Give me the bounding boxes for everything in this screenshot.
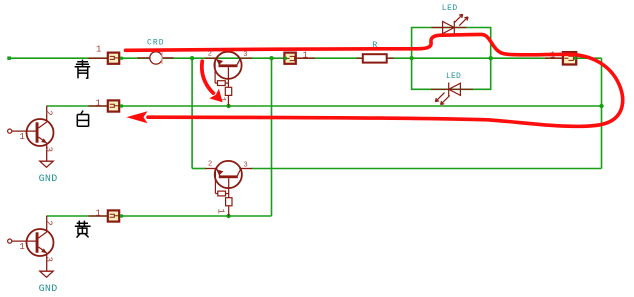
J1 body: [108, 53, 119, 64]
svg-text:2: 2: [44, 220, 54, 225]
Q3 base bar: [36, 122, 39, 142]
Q4 base bar: [36, 232, 39, 252]
D2 lead: [431, 88, 473, 90]
Q2 series base resistor box: [226, 198, 232, 206]
junction node on 青 at x=490.7: [489, 56, 493, 60]
Q3 emitter pin down: [46, 143, 48, 161]
R right lead: [388, 57, 394, 59]
D2 emission arrow a: [435, 93, 444, 102]
connector J3 (net 黄): [88, 208, 123, 221]
CRD body circle: [150, 52, 162, 64]
Q4 collector line: [39, 232, 47, 238]
transistor Q3 (left NPN, net 白 driver): [8, 106, 58, 185]
Q2 pin 3 lead: [239, 168, 252, 170]
Q3 emitter line: [39, 137, 47, 143]
wire net 青 main horizontal: [8, 57, 602, 59]
Q3 base lead: [12, 130, 37, 132]
Q1 base lead to node: [227, 95, 229, 106]
CRD cathode tick: [161, 52, 163, 65]
red annotation stroke (freehand): [126, 34, 623, 126]
wire end dot at J1: [120, 57, 123, 60]
svg-text:GND: GND: [39, 284, 58, 295]
J2 pin 1 lead: [88, 105, 106, 107]
R body: [363, 54, 387, 62]
J4 socket notch: [285, 56, 294, 60]
J4 body: [284, 53, 295, 64]
svg-text:2: 2: [208, 161, 212, 169]
Q4 body circle: [27, 229, 54, 256]
LED D1 (top, anode left): [431, 14, 468, 34]
J4 pin 1 lead: [297, 57, 315, 59]
Q1 emitter line: [216, 58, 219, 65]
J2 body: [108, 100, 119, 111]
Q2 body circle: [215, 161, 242, 188]
J1 pin 1 lead: [88, 57, 106, 59]
Q2 emitter line: [217, 169, 220, 176]
D1 cathode bar: [453, 21, 455, 34]
label 黄 (hand-drawn glyph): [75, 221, 91, 238]
wire net 白 horizontal: [47, 105, 602, 107]
wire LED block bottom rail: [412, 58, 491, 89]
ground symbol GND (Q4 emitter): [40, 271, 53, 277]
Q2 base bar: [219, 175, 238, 178]
svg-text:LED: LED: [446, 72, 461, 81]
wire end dot at J5: [574, 57, 577, 60]
Q4 emitter pin down: [46, 253, 48, 271]
CRD left lead: [138, 57, 150, 59]
svg-text:1: 1: [96, 208, 101, 218]
D1 emission arrow a: [454, 14, 463, 23]
D2 triangle: [449, 83, 461, 95]
Q1 pin 2 lead: [205, 57, 217, 59]
J5 socket notch: [564, 56, 573, 60]
svg-text:GND: GND: [39, 174, 58, 185]
LED D2 (bottom, anode right): [431, 83, 473, 105]
wire horizontal to Q2 pin2: [192, 168, 206, 170]
D1 lead: [431, 27, 466, 29]
J2 socket notch: [110, 104, 119, 107]
junction node on 青 at x=192: [190, 56, 194, 60]
Q4 base lead: [12, 240, 37, 242]
Q2 base lead down: [228, 178, 230, 198]
Q3 pin 1 open end pad: [8, 129, 12, 133]
svg-text:CRD: CRD: [147, 38, 165, 47]
wire Q2 pin3 to right: [251, 168, 602, 170]
Q1 collector line: [237, 58, 241, 65]
Q4 emitter line: [39, 247, 47, 253]
Q1 emitter arrow: [217, 59, 223, 65]
red annotation arrowhead (curved arrow): [209, 89, 222, 103]
J3 pin 1 lead: [88, 215, 106, 217]
junction node on 青 at x=271.5: [269, 56, 273, 60]
svg-text:1: 1: [216, 209, 226, 214]
J3 body: [108, 210, 119, 221]
Q4 pin 1 open end pad: [8, 239, 12, 243]
resistor R: [357, 40, 394, 63]
Q1 series base resistor box: [225, 87, 231, 95]
Q1 emitter-resistor link: [214, 58, 216, 83]
junction node on 青 at x=411.6: [409, 56, 413, 60]
Q3 body circle: [27, 119, 54, 146]
Q1 base bar: [219, 64, 238, 67]
svg-text:3: 3: [243, 51, 247, 59]
connector J5 (right side): [545, 51, 577, 65]
svg-text:1: 1: [19, 242, 24, 252]
Q1 base lead down: [227, 67, 229, 87]
svg-text:LED: LED: [442, 4, 458, 13]
R left lead: [357, 57, 362, 59]
Q3 collector line: [39, 122, 47, 128]
svg-text:1: 1: [19, 132, 24, 142]
Q3 emitter arrow: [41, 138, 47, 143]
D1 triangle: [443, 22, 455, 34]
wire end dot at J3: [120, 214, 123, 217]
junction node 白 at Q1 base: [226, 104, 230, 108]
junction node on 白 at x=601.5: [599, 104, 603, 108]
transistor Q4 (left NPN, net 黄 driver): [8, 216, 58, 295]
J5 pin 1 lead: [545, 57, 562, 59]
current regulating diode CRD: [138, 38, 174, 64]
CRD right lead: [162, 57, 173, 59]
svg-text:2: 2: [44, 110, 54, 115]
red annotation arrowhead (long left arrow): [126, 111, 147, 123]
wire vertical x=271.5: [271, 58, 273, 216]
Q1 bias resistor box: [218, 81, 226, 86]
Q4 collector pin up: [46, 216, 48, 232]
svg-text:3: 3: [43, 147, 53, 152]
transistor Q1 (top middle, digital transistor with bias resistors): [205, 50, 252, 106]
svg-text:1: 1: [96, 98, 101, 108]
wire vertical x=192: [191, 58, 193, 168]
Q2 pin 2 lead: [205, 168, 217, 170]
Q2 emitter-resistor link: [214, 169, 216, 194]
Q2 bias resistor box: [218, 191, 226, 196]
Q2 base lead to node: [228, 206, 230, 216]
label 白 (hand-drawn glyph): [77, 111, 88, 127]
wire LED block top rail: [412, 28, 491, 59]
Q1 pin 3 lead: [239, 57, 252, 59]
red annotation curved arrow at Q1: [202, 61, 213, 93]
connector J4 (on net 青 right of Q1): [284, 51, 315, 64]
wire start marker left end: [7, 56, 11, 60]
J5 body: [563, 52, 576, 64]
svg-text:1: 1: [303, 51, 308, 61]
wire vertical x=601.5: [601, 58, 603, 168]
D1 emission arrow b: [459, 17, 468, 26]
Q2 collector line: [237, 169, 241, 176]
svg-text:3: 3: [244, 161, 248, 169]
connector J2 (net 白): [88, 98, 123, 111]
junction node 黄 at Q2 base: [226, 214, 230, 218]
svg-text:1: 1: [96, 45, 101, 55]
J3 socket notch: [110, 214, 119, 217]
svg-text:3: 3: [43, 257, 53, 262]
transistor Q2 (middle, digital transistor with bias resistors): [205, 161, 252, 216]
wire net 黄 horizontal: [47, 215, 272, 217]
Q4 emitter arrow: [41, 248, 47, 253]
ground symbol GND (Q3 emitter): [40, 161, 53, 167]
connector J1 (net 青): [88, 45, 123, 64]
Q1 body circle: [214, 52, 241, 79]
D2 cathode bar: [448, 83, 450, 97]
wire end dot at J4: [284, 57, 287, 60]
J1 socket notch: [110, 56, 119, 59]
wire end dot at J2: [120, 104, 123, 107]
Q2 emitter arrow: [217, 170, 223, 176]
svg-text:2: 2: [208, 50, 212, 58]
Q3 collector pin up: [46, 106, 48, 122]
label 青 (hand-drawn glyph): [75, 60, 91, 79]
D2 emission arrow b: [441, 96, 450, 105]
